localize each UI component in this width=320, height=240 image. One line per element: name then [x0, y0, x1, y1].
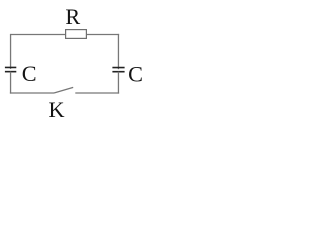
wire: top-right horizontal (resistor to right corner): [86, 34, 119, 36]
capacitor C-right top plate: [112, 67, 124, 69]
wire: left side upper (top corner down past top plate): [10, 34, 12, 69]
svg-text:K: K: [48, 97, 64, 122]
wire: right side lower (bottom plate down to bottom corner): [117, 72, 119, 94]
resistor R box: [66, 30, 87, 39]
capacitor C-right bottom plate: [112, 71, 124, 73]
svg-text:C: C: [22, 61, 37, 86]
wire: top-left horizontal (left corner to resistor): [11, 34, 66, 36]
capacitor C-left top plate: [5, 66, 16, 68]
wire: bottom-left horizontal (left corner to switch): [10, 92, 54, 94]
wire: bottom-right horizontal (switch to right corner): [75, 92, 119, 94]
wire: right side upper (top corner down past top plate): [117, 34, 119, 69]
switch K blade (open, diagonal): [54, 87, 73, 93]
wire: left side lower (bottom plate down to bottom corner): [10, 72, 12, 94]
svg-text:R: R: [65, 4, 80, 29]
svg-text:C: C: [128, 62, 143, 87]
capacitor C-left bottom plate: [5, 71, 16, 73]
